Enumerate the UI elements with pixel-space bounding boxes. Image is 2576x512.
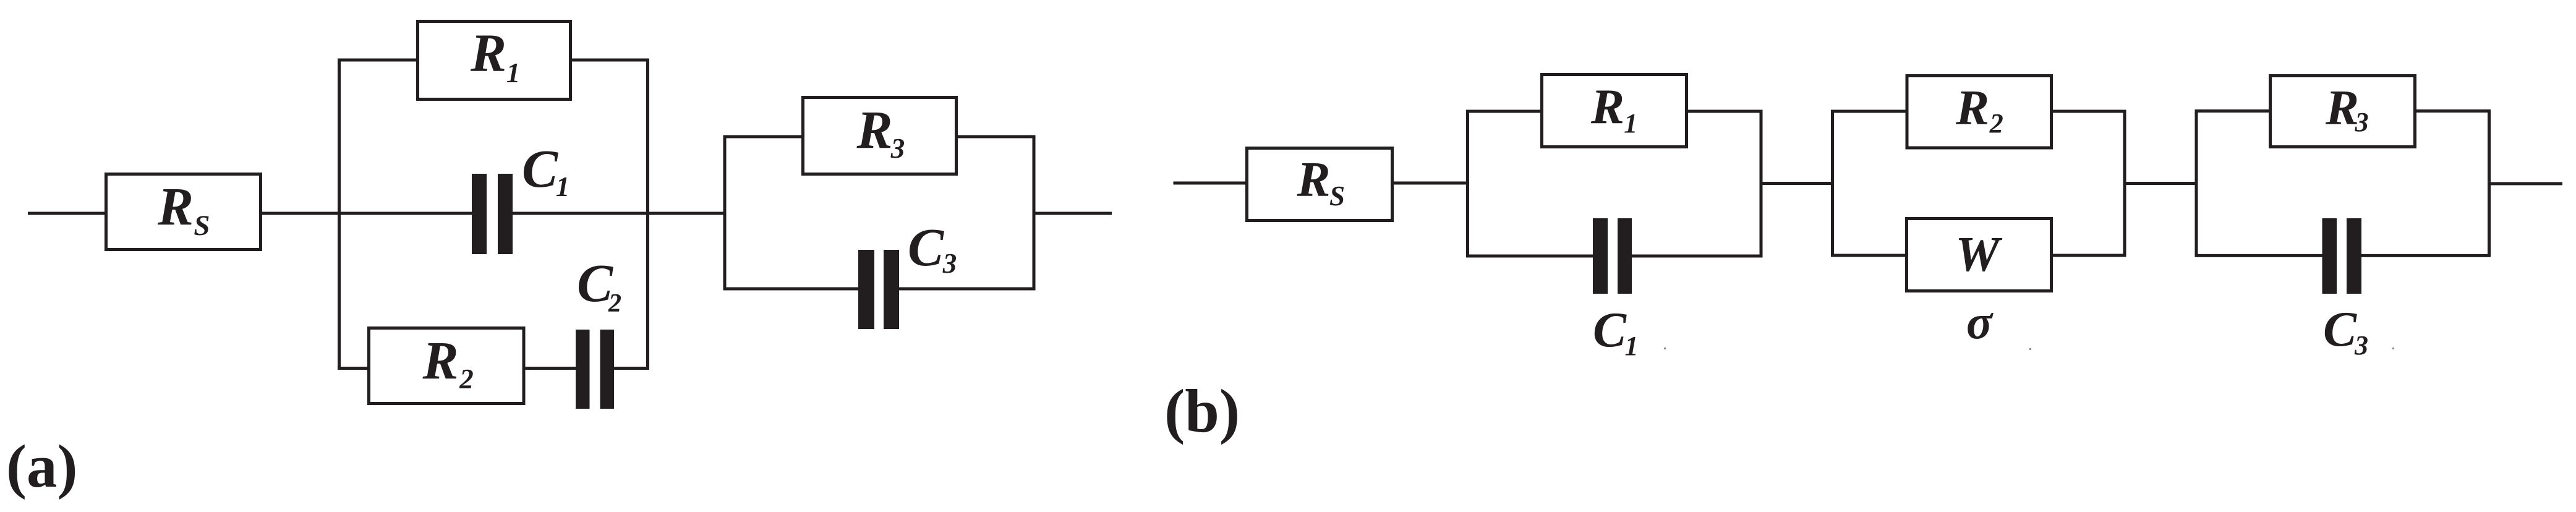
svg-text:C: C — [908, 217, 944, 277]
capacitor C2 plates — [576, 330, 590, 409]
resistor R1 (b) — [1542, 75, 1687, 147]
svg-text:3: 3 — [2354, 330, 2368, 361]
svg-text:C: C — [1593, 302, 1627, 357]
node E left rail block1 (b) — [1466, 110, 1469, 258]
wire C3 bottom left (b) — [2195, 254, 2324, 257]
svg-text:R: R — [2325, 80, 2359, 135]
wire node B to R3 block — [648, 212, 727, 215]
resistor R3 — [803, 98, 957, 174]
wire input (b) — [1174, 182, 1248, 185]
node B right rail (a) — [646, 59, 649, 370]
wire C1 bottom right (b) — [1631, 255, 1763, 258]
capacitor C3 plates — [858, 250, 874, 329]
svg-text:R: R — [1955, 80, 1989, 135]
wire RS to node A — [262, 212, 341, 215]
svg-text:C: C — [522, 139, 558, 198]
resistor RS — [106, 174, 261, 250]
node F right rail block1 (b) — [1760, 110, 1763, 258]
svg-text:3: 3 — [890, 133, 905, 164]
speck near C1 (b) — [1664, 348, 1666, 349]
svg-text:S: S — [1329, 181, 1345, 211]
speck near sigma (b) — [2029, 348, 2031, 350]
wire R2 top left (b) — [1831, 110, 1908, 113]
wire C2 to node B — [613, 367, 649, 370]
svg-text:2: 2 — [608, 289, 621, 318]
node I left rail block3 (b) — [2195, 109, 2198, 257]
svg-text:1: 1 — [1625, 331, 1639, 361]
wire C3 bottom right — [898, 288, 1036, 291]
svg-text:3: 3 — [2355, 107, 2369, 137]
resistor RS (b) — [1247, 148, 1392, 221]
wire RS to node E (b) — [1392, 182, 1470, 185]
svg-text:σ: σ — [1966, 295, 1994, 349]
wire top branch left (a) — [338, 59, 418, 62]
wire middle branch left (a) — [338, 212, 472, 215]
node H right rail block2 (b) — [2123, 110, 2126, 257]
wire node H to node I (b) — [2125, 182, 2198, 185]
resistor R2 (b) — [1907, 76, 2052, 148]
node D right rail R3 block — [1033, 135, 1036, 291]
resistor R1 — [418, 22, 571, 100]
svg-text:R: R — [1296, 151, 1330, 207]
speck near C3 (b) — [2392, 348, 2394, 349]
svg-text:R: R — [1590, 79, 1624, 135]
svg-text:S: S — [194, 210, 210, 242]
svg-text:1: 1 — [556, 171, 570, 202]
wire R1 top left (b) — [1466, 110, 1542, 113]
svg-text:R: R — [470, 23, 506, 83]
svg-text:R: R — [422, 330, 458, 390]
wire bottom branch left (a) — [338, 367, 370, 370]
svg-text:2: 2 — [1989, 108, 2003, 139]
svg-text:1: 1 — [506, 58, 521, 88]
wire middle branch right (a) — [512, 212, 649, 215]
svg-text:(b): (b) — [1164, 377, 1240, 445]
svg-text:2: 2 — [459, 364, 474, 395]
wire R2 to C2 — [524, 367, 576, 370]
wire W bottom right (b) — [2052, 254, 2126, 257]
svg-text:(a): (a) — [6, 433, 77, 500]
capacitor C1 plates (b) — [1593, 218, 1608, 294]
wire R2 top right (b) — [2052, 110, 2126, 113]
wire R3 top left (b) — [2195, 109, 2271, 113]
svg-text:R: R — [856, 100, 892, 160]
svg-text:R: R — [157, 176, 194, 236]
wire output (b) — [2489, 182, 2563, 186]
wire input (a) — [28, 212, 106, 215]
wire node F to node G (b) — [1761, 182, 1834, 185]
svg-text:1: 1 — [1624, 108, 1637, 139]
svg-text:W: W — [1955, 228, 2002, 282]
node C left rail R3 block — [723, 135, 727, 291]
capacitor C3 plates (b) — [2322, 218, 2337, 294]
wire C3 bottom left — [723, 288, 859, 291]
node G left rail block2 (b) — [1831, 110, 1834, 257]
node J right rail block3 (b) — [2488, 109, 2491, 257]
wire W bottom left (b) — [1831, 254, 1908, 257]
warburg element W — [1907, 219, 2052, 291]
wire C3 bottom right (b) — [2361, 254, 2491, 257]
wire R3 top left — [723, 135, 804, 139]
wire R3 top right (b) — [2415, 109, 2491, 113]
wire R1 top right (b) — [1686, 110, 1763, 113]
svg-text:C: C — [2323, 301, 2357, 357]
svg-text:3: 3 — [942, 248, 957, 279]
wire top branch right (a) — [570, 59, 649, 62]
capacitor C1 plates — [472, 174, 487, 254]
wire R3 top right — [956, 135, 1036, 139]
wire C1 bottom left (b) — [1466, 255, 1594, 258]
resistor R2 — [369, 328, 524, 404]
wire output (a) — [1034, 212, 1112, 215]
resistor R3 (b) — [2271, 76, 2415, 147]
node A left rail (a) — [338, 59, 341, 370]
